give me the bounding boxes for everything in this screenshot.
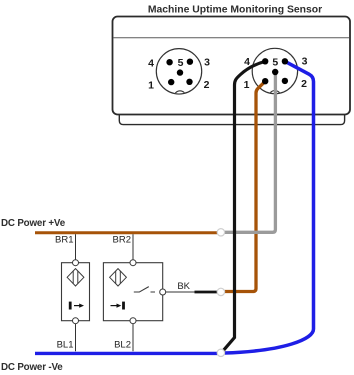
S2 input symbol (arrow into bar) [111,305,118,307]
svg-text:5: 5 [272,57,278,69]
proximity sensor S1 body [62,263,90,321]
svg-text:3: 3 [204,57,210,69]
wire BK thin lead from S2 switch output [166,291,195,293]
J2 keyway notch [269,91,281,103]
wire: DC Power +Ve bus (brown) [35,231,218,234]
connector J1 (left M12 receptacle) [156,49,201,94]
wire BK black segment [195,291,219,294]
J1 pin 3 [187,59,193,65]
svg-text:BL2: BL2 [114,340,131,351]
svg-text:4: 4 [244,56,250,68]
svg-text:BR2: BR2 [113,234,131,245]
svg-text:1: 1 [244,79,250,91]
svg-text:BK: BK [177,281,190,292]
J2 pin 5 [272,69,278,75]
node junction on -Ve bus [217,349,224,356]
wire BR2 (sensor S2 brown lead) [132,234,134,260]
S1 bottom terminal [73,318,79,324]
svg-text:BR1: BR1 [55,234,73,245]
J2 pin 1 [262,78,268,84]
S2 switch contact SW1 [134,291,139,293]
node junction on BK wire [217,288,224,295]
svg-text:DC Power -Ve: DC Power -Ve [1,362,63,373]
svg-text:2: 2 [301,78,307,90]
svg-text:Machine Uptime Monitoring Sens: Machine Uptime Monitoring Sensor [148,4,322,15]
svg-text:4: 4 [148,57,154,69]
S2 top terminal [130,260,136,266]
wire: DC Power -Ve bus (blue) [35,352,218,355]
node junction on +Ve bus [217,229,224,236]
svg-text:BL1: BL1 [57,340,74,351]
svg-text:1: 1 [148,80,154,92]
svg-text:5: 5 [178,57,184,69]
enclosure base lip [119,115,344,125]
svg-text:2: 2 [204,79,210,91]
wire BL2 (sensor S2 blue lead) [132,324,134,352]
S2 right terminal (switch output) [160,289,166,295]
S1 top terminal [73,260,79,266]
wire BR1 (sensor S1 brown lead) [75,234,77,260]
wire: blue lead from J2 pin 3 to -Ve bus [225,61,314,353]
wire: brown lead from J2 pin 1 to BK node [225,81,266,291]
enclosure U1 sensor body [113,17,351,115]
connector J2 (right M12 receptacle) [252,48,297,93]
wire: grey lead from J2 pin 5 to +Ve node [225,72,276,232]
J1 pin 5 [177,69,183,75]
proximity sensor S2 body [103,263,162,321]
J1 pin 2 [186,79,192,85]
svg-text:3: 3 [302,56,308,68]
S1 proximity symbol (diamond) [67,269,84,286]
S1 output symbol (bar and arrow) [69,302,72,310]
wire BL1 (sensor S1 blue lead) [75,324,77,352]
J2 pin 4 [262,58,268,64]
J1 keyway notch [174,91,186,103]
J1 pin 1 [168,79,174,85]
J2 pin 3 [282,58,288,64]
wire: black lead from J2 pin 4 to -Ve node [223,62,264,351]
J2 pin 2 [282,78,288,84]
J1 pin 4 [166,59,172,65]
S2 bottom terminal [130,318,136,324]
svg-text:DC Power +Ve: DC Power +Ve [1,218,66,229]
S2 proximity symbol (diamond) [110,269,127,286]
enclosure lid seam line [113,37,350,39]
